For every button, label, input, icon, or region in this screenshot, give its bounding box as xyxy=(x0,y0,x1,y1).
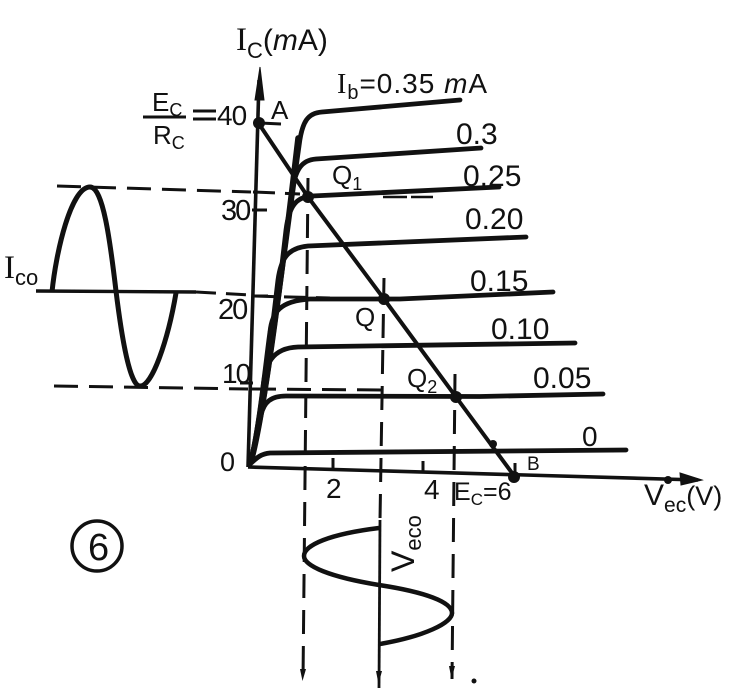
svg-text:20: 20 xyxy=(218,294,247,326)
svg-text:EC=6: EC=6 xyxy=(454,478,511,509)
dashed midline to axis xyxy=(196,292,250,295)
Ib curve 0.15 xyxy=(250,292,553,464)
y-axis xyxy=(248,67,264,467)
Ib curve 0.10 xyxy=(250,343,575,464)
x tick 4 xyxy=(422,461,425,471)
figure number 6 circled xyxy=(72,521,122,571)
svg-text:0.10: 0.10 xyxy=(491,313,549,346)
small dot on load line xyxy=(489,440,497,448)
arrow end of Q vertical xyxy=(376,671,382,684)
dashed segment right of Q1 xyxy=(383,196,433,198)
dashed vertical through Q1 xyxy=(303,178,308,681)
x tick 6 xyxy=(514,463,517,474)
y tick 10 xyxy=(240,382,253,385)
svg-text:0: 0 xyxy=(220,447,235,477)
arrow end of Q1 vertical xyxy=(300,669,306,681)
svg-text:0: 0 xyxy=(582,421,598,452)
x tick 2 xyxy=(332,458,335,469)
Ib curve 0.35 xyxy=(250,100,460,462)
dashed horizontal Q1 level right of axis xyxy=(253,192,300,194)
svg-text:2: 2 xyxy=(326,473,342,504)
Ib curve 0.25 xyxy=(250,187,499,463)
point Q1 xyxy=(302,191,314,203)
dashed vertical through Q xyxy=(380,278,384,520)
svg-text:A: A xyxy=(271,95,289,125)
dot on x-axis near arrow xyxy=(664,476,672,484)
x-axis xyxy=(248,467,702,485)
solid center line of output sine xyxy=(379,520,380,688)
output sine wave Veco xyxy=(304,528,452,644)
Ib curve 0.3 xyxy=(250,148,481,463)
point Q2 xyxy=(450,391,462,403)
svg-text:6: 6 xyxy=(88,527,109,569)
svg-text:0.20: 0.20 xyxy=(465,203,523,236)
input sine wave Ico xyxy=(52,187,176,386)
svg-text:0.3: 0.3 xyxy=(456,118,498,151)
Ib curve 0 xyxy=(250,450,626,464)
y tick 30 xyxy=(252,209,267,212)
dashed vertical through Q2 xyxy=(452,374,455,679)
Ib curve 0.05 xyxy=(250,394,603,464)
svg-text:0.25: 0.25 xyxy=(463,160,521,193)
point Q xyxy=(378,293,390,305)
svg-text:10: 10 xyxy=(222,358,251,389)
svg-text:40: 40 xyxy=(217,100,247,131)
svg-text:B: B xyxy=(527,454,540,475)
steep trunk of curves xyxy=(251,138,298,462)
solid midline of input sine (20 level) xyxy=(36,291,196,292)
svg-text:0.05: 0.05 xyxy=(533,362,591,395)
arrow end of Q2 vertical xyxy=(449,666,455,679)
svg-text:0.15: 0.15 xyxy=(470,265,528,298)
load line A-B xyxy=(259,124,515,477)
Ib curve 0.20 xyxy=(250,237,526,464)
svg-text:4: 4 xyxy=(424,474,440,505)
point A xyxy=(253,117,265,129)
dashed horizontal Q2 level right of axis xyxy=(252,389,382,390)
dashed midline right of axis to Q knee xyxy=(252,296,330,298)
point B xyxy=(508,471,520,483)
dashed horizontal at Q1 level xyxy=(57,186,251,192)
svg-text:Q: Q xyxy=(355,302,375,332)
Ec/Rc = 40 fraction label xyxy=(143,87,216,153)
stray dot bottom right xyxy=(472,679,477,684)
y tick 20 xyxy=(252,295,268,298)
svg-text:Ib=0.35 mA: Ib=0.35 mA xyxy=(337,68,488,104)
y tick 40 xyxy=(260,123,281,124)
dashed horizontal at Q2 level xyxy=(54,386,248,389)
svg-text:30: 30 xyxy=(221,195,250,227)
